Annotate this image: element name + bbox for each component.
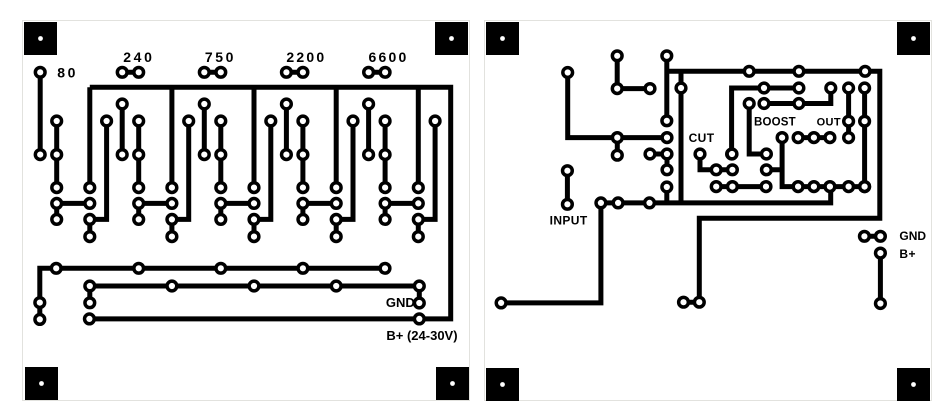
- svg-text:OUT: OUT: [817, 116, 841, 128]
- svg-text:2200: 2200: [286, 49, 326, 65]
- svg-text:750: 750: [205, 49, 236, 65]
- svg-text:BOOST: BOOST: [754, 116, 796, 128]
- svg-text:GND: GND: [386, 295, 415, 310]
- svg-text:CUT: CUT: [689, 131, 715, 145]
- svg-text:GND: GND: [899, 229, 926, 243]
- svg-text:240: 240: [123, 49, 154, 65]
- svg-text:B+ (24-30V): B+ (24-30V): [386, 328, 457, 343]
- svg-text:B+: B+: [899, 247, 916, 261]
- svg-text:80: 80: [57, 65, 78, 81]
- svg-text:INPUT: INPUT: [550, 213, 588, 227]
- svg-text:6600: 6600: [369, 49, 409, 65]
